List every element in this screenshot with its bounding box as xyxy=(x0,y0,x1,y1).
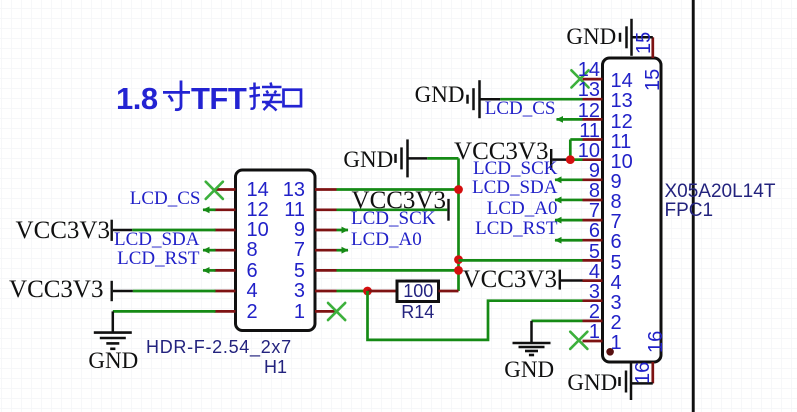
net label LCD_RST (FPC1) xyxy=(475,219,557,238)
pin number 2 outside FPC1 xyxy=(589,302,600,322)
wire arrow pin 7 FPC1 xyxy=(555,217,562,224)
ground symbol (pin 15) xyxy=(620,19,632,56)
wire pin 8 H1 xyxy=(203,249,216,252)
net label LCD_CS (H1) xyxy=(130,189,201,208)
wire pin 8 FPC1 xyxy=(555,199,583,202)
ground text GND (middle) xyxy=(343,148,393,171)
designator FPC1 xyxy=(665,201,714,220)
pin 1 marker dot FPC1 xyxy=(606,348,614,356)
wire vertical GND net xyxy=(457,158,460,291)
pin number 12 inside FPC1 xyxy=(611,112,633,132)
wire arrow pin 7 H1 xyxy=(342,247,349,254)
ground symbol (H1 pin2) xyxy=(94,333,132,349)
wire pin 12 H1 xyxy=(203,208,216,211)
designator R14 xyxy=(401,303,434,321)
pin number 1 inside FPC1 xyxy=(611,333,622,353)
pin number 7 inside FPC1 xyxy=(611,212,622,232)
net label LCD_SCK (H1) xyxy=(351,209,435,228)
pin number 5 outside FPC1 xyxy=(589,242,600,262)
no-connect X pin 14 FPC1 xyxy=(571,70,588,87)
pin 5 stub FPC1 xyxy=(583,259,603,262)
resistor R14 body xyxy=(397,281,439,302)
power port VCC3V3 text (H1 pin11) xyxy=(352,188,446,213)
wire pin 7 H1 xyxy=(337,249,349,252)
pin 2 stub H1 xyxy=(215,310,236,313)
ground stub (FPC1 pin2) xyxy=(530,321,533,343)
ground text GND (FPC1 pin2) xyxy=(504,358,554,381)
schematic title part "1.8" xyxy=(116,83,158,114)
pin 13 stub H1 xyxy=(315,188,337,191)
wire pin 2 FPC1 xyxy=(532,320,583,323)
junction (pin10/pin11 FPC1) xyxy=(566,155,575,164)
pin 13 stub FPC1 xyxy=(583,98,603,101)
wire pin 7 FPC1 xyxy=(555,219,583,222)
pin number 10 H1 xyxy=(247,220,269,240)
pin number 13 H1 xyxy=(283,180,305,200)
pin number 6 outside FPC1 xyxy=(589,221,600,241)
pin 12 stub H1 xyxy=(215,208,236,211)
wire pin 5 FPC1 to GND net xyxy=(459,259,583,262)
pin number 15 inside FPC1 xyxy=(643,69,663,91)
pin number 11 inside FPC1 xyxy=(611,132,632,152)
pin 10 stub H1 xyxy=(215,229,236,232)
net label LCD_SDA (H1) xyxy=(114,230,200,249)
pin number 15 outside FPC1 xyxy=(634,32,654,54)
pin 9 stub H1 xyxy=(315,229,337,232)
pin 3 stub H1 xyxy=(315,290,337,293)
pin number 9 outside FPC1 xyxy=(589,161,600,181)
wire pin 9 H1 xyxy=(337,229,349,232)
pin 3 stub FPC1 xyxy=(583,299,603,302)
junction (pin13 H1 / GND net) xyxy=(454,185,463,194)
pin 12 stub FPC1 xyxy=(583,118,603,121)
pin number 3 inside FPC1 xyxy=(611,293,622,313)
pin 11 stub FPC1 xyxy=(583,138,603,141)
power port VCC3V3 bar (FPC1 pin10) xyxy=(550,149,552,170)
power port VCC3V3 lead (H1 pin10) xyxy=(113,229,133,232)
power port VCC3V3 text (H1 pin10) xyxy=(16,218,110,243)
pin number 5 H1 xyxy=(294,261,305,281)
sheet border line xyxy=(692,0,695,412)
junction (pin5 H1 / GND net) xyxy=(454,266,463,275)
wire arrow pin 12 H1 xyxy=(203,206,210,213)
pin number 6 inside FPC1 xyxy=(611,232,622,252)
wire arrow pin 6 H1 xyxy=(203,267,210,274)
pin 10 stub FPC1 xyxy=(583,158,603,161)
pin number 12 outside FPC1 xyxy=(578,101,600,121)
ground lead (pin16) xyxy=(631,382,653,385)
pin number 13 inside FPC1 xyxy=(611,91,633,111)
power port VCC3V3 bar (H1 pin4) xyxy=(110,281,112,301)
pin number 16 inside FPC1 xyxy=(646,331,666,353)
pin 6 stub H1 xyxy=(215,269,236,272)
wire pin 10 H1 xyxy=(132,229,215,232)
pin number 10 inside FPC1 xyxy=(611,152,633,172)
pin 4 stub H1 xyxy=(215,290,236,293)
schematic title part "TFT" xyxy=(191,83,246,114)
power port VCC3V3 text (FPC1 pin4) xyxy=(463,267,557,292)
schematic title glyph 口 xyxy=(282,82,303,108)
pin 11 stub H1 xyxy=(315,208,337,211)
no-connect X pin 1 FPC1 xyxy=(570,332,587,349)
wire arrow pin 9 H1 xyxy=(342,227,349,234)
wire arrow pin 12 FPC1 xyxy=(556,116,563,123)
ground text GND (pin16) xyxy=(567,371,617,394)
ground text GND (pin15) xyxy=(566,25,616,48)
net label LCD_A0 (H1) xyxy=(351,230,422,249)
pin 16 stub FPC1 xyxy=(651,362,654,383)
pin number 2 H1 xyxy=(247,302,258,322)
wire arrow pin 6 FPC1 xyxy=(555,237,562,244)
value X05A20L14T (FPC1) xyxy=(665,182,776,201)
pin 8 stub FPC1 xyxy=(583,199,603,202)
pin number 11 outside FPC1 xyxy=(579,121,600,141)
pin number 9 H1 xyxy=(294,220,305,240)
pin 6 stub FPC1 xyxy=(583,239,603,242)
pin 7 stub H1 xyxy=(315,249,337,252)
pin number 1 outside FPC1 xyxy=(589,322,600,342)
pin 14 stub H1 xyxy=(215,188,236,191)
schematic title glyph 寸 xyxy=(162,80,191,112)
pin number 7 outside FPC1 xyxy=(589,201,600,221)
ground symbol (FPC1 pin2) xyxy=(513,343,551,355)
net label LCD_SCK (FPC1) xyxy=(473,159,557,178)
pin number 4 outside FPC1 xyxy=(589,262,600,282)
wire GND to vertical net xyxy=(427,157,458,160)
pin number 4 inside FPC1 xyxy=(611,273,622,293)
pin number 8 outside FPC1 xyxy=(589,181,600,201)
pin number 2 inside FPC1 xyxy=(611,313,622,333)
pin number 10 outside FPC1 xyxy=(578,141,600,161)
wire pin 10 FPC1 xyxy=(570,158,582,161)
pin number 14 inside FPC1 xyxy=(611,71,633,91)
power port VCC3V3 text (H1 pin4) xyxy=(9,277,103,302)
net label LCD_SDA (FPC1) xyxy=(472,178,558,197)
wire pin 3 H1 xyxy=(337,290,368,293)
wire pin 11 H1 xyxy=(337,208,448,211)
pin number 3 H1 xyxy=(294,281,305,301)
wire pin 12 FPC1 xyxy=(557,118,583,121)
pin 15 stub FPC1 xyxy=(651,37,654,58)
pin number 14 H1 xyxy=(247,180,269,200)
wire pin 11 to pin 10 net FPC1 xyxy=(569,140,572,160)
wire pin 4 H1 xyxy=(133,290,216,293)
ground symbol (pin 13 FPC1) xyxy=(468,80,501,118)
pin number 5 inside FPC1 xyxy=(611,253,622,273)
net label LCD_A0 (FPC1) xyxy=(487,199,558,218)
power port VCC3V3 bar (H1 pin10) xyxy=(110,220,112,241)
junction (pin3 H1 / R14) xyxy=(363,287,372,296)
value HDR-F-2.54_2x7 xyxy=(146,338,292,356)
wire arrow pin 9 FPC1 xyxy=(555,176,562,183)
power port VCC3V3 bar (FPC1 pin4) xyxy=(559,270,561,290)
pin number 3 outside FPC1 xyxy=(589,282,600,302)
schematic title glyph 接 xyxy=(249,81,282,112)
pin 14 stub FPC1 xyxy=(583,78,603,81)
pin 2 stub FPC1 xyxy=(583,320,603,323)
pin 1 stub FPC1 xyxy=(583,340,603,343)
no-connect X pin 1 H1 xyxy=(328,303,345,320)
ground symbol (middle) xyxy=(396,139,428,177)
pin 1 stub H1 xyxy=(315,310,337,313)
pin number 13 outside FPC1 xyxy=(578,80,600,100)
wire arrow pin 8 FPC1 xyxy=(555,197,562,204)
power port VCC3V3 lead (FPC1 pin10) xyxy=(552,158,570,161)
value 100 (R14) xyxy=(403,282,433,300)
wire pin 13 FPC1 xyxy=(500,98,582,101)
pin 9 stub FPC1 xyxy=(583,178,603,181)
pin number 12 H1 xyxy=(247,200,269,220)
wire pin 2 H1 xyxy=(113,310,216,313)
pin number 8 inside FPC1 xyxy=(611,192,622,212)
lead R14 left xyxy=(368,290,398,293)
no-connect X pin 14 H1 xyxy=(206,182,223,199)
pin 5 stub H1 xyxy=(315,269,337,272)
ground lead (pin15) xyxy=(632,36,653,39)
power port VCC3V3 lead (H1 pin4) xyxy=(113,290,133,293)
pin 7 stub FPC1 xyxy=(583,219,603,222)
pin number 14 outside FPC1 xyxy=(578,60,600,80)
connector H1 body xyxy=(236,170,316,331)
pin number 7 H1 xyxy=(294,240,305,260)
pin number 16 outside FPC1 xyxy=(633,362,653,384)
net label LCD_RST (H1) xyxy=(117,249,199,268)
wire pin 13 H1 to GND net xyxy=(337,188,459,191)
wire pin 6 FPC1 xyxy=(555,239,583,242)
power port VCC3V3 text (FPC1 pin10) xyxy=(454,139,548,164)
power port VCC3V3 lead (FPC1 pin4) xyxy=(561,279,583,282)
wire pin3 H1 junction to pin 3 FPC1 xyxy=(368,291,583,340)
net label LCD_CS (FPC1) xyxy=(485,99,556,118)
ground stub (H1 pin2) xyxy=(112,311,115,332)
pin 4 stub FPC1 xyxy=(583,279,603,282)
ground text GND (H1 pin2) xyxy=(88,349,138,372)
wire arrow pin 8 H1 xyxy=(203,247,210,254)
connector FPC1 body xyxy=(603,58,662,362)
pin number 11 H1 xyxy=(284,200,305,220)
pin 8 stub H1 xyxy=(215,249,236,252)
lead R14 right xyxy=(439,290,459,293)
pin number 4 H1 xyxy=(247,281,258,301)
pin number 6 H1 xyxy=(247,261,258,281)
wire pin 9 FPC1 xyxy=(555,178,583,181)
designator H1 xyxy=(264,358,287,376)
junction (pin5 FPC1 / GND net) xyxy=(454,255,463,264)
wire pin 11 FPC1 xyxy=(570,138,582,141)
wire pin 6 H1 xyxy=(203,269,216,272)
ground symbol (pin 16) xyxy=(620,363,632,400)
wire pin 5 H1 to GND net xyxy=(337,269,459,272)
power port VCC3V3 bar (H1 pin11) xyxy=(447,199,449,221)
pin number 8 H1 xyxy=(247,240,258,260)
ground text GND (pin13 FPC1) xyxy=(415,83,465,106)
pin number 9 inside FPC1 xyxy=(611,172,622,192)
pin number 1 H1 xyxy=(294,302,305,322)
